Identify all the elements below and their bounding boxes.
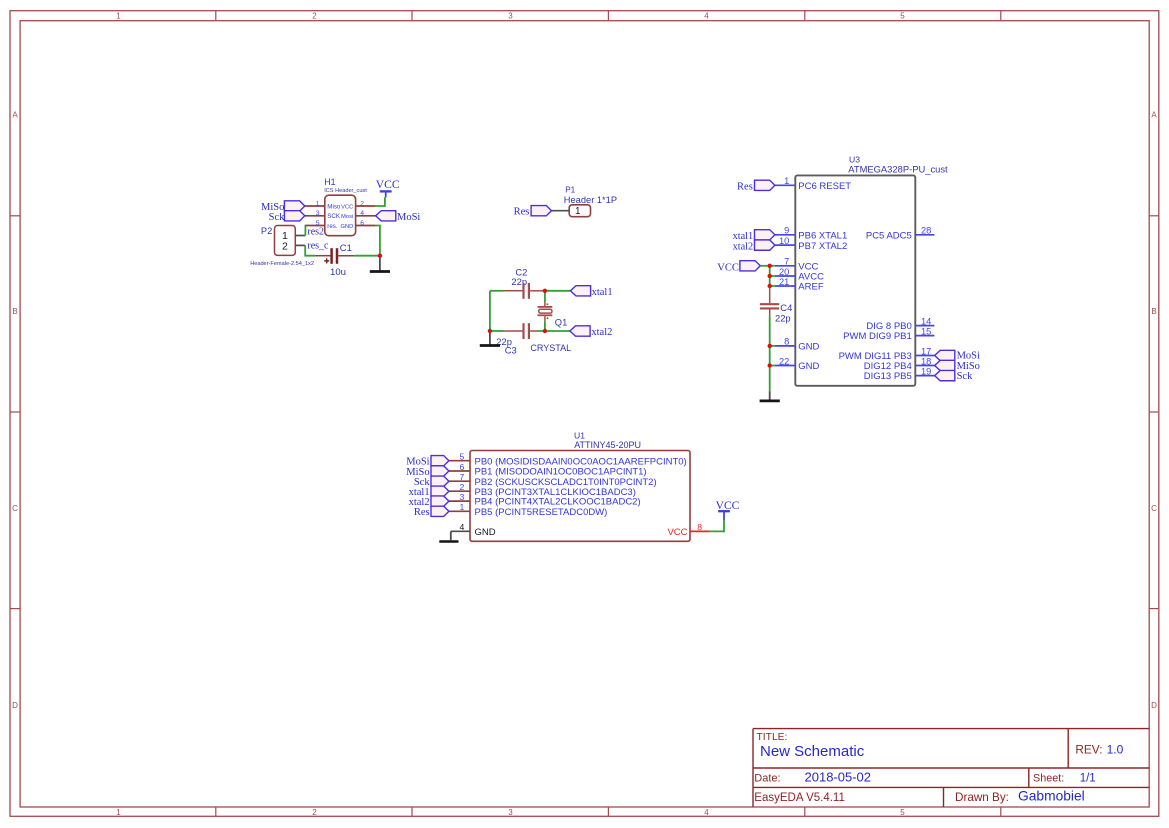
H1 pin 6 (356, 225, 376, 227)
svg-text:VCC: VCC (717, 263, 739, 274)
H1 pin 4 (356, 215, 376, 217)
U1 pin 6 (PB1) (449, 470, 470, 472)
port flag xtal2 (to U3 pin10) (755, 240, 775, 250)
svg-text:3: 3 (459, 492, 464, 502)
svg-text:4: 4 (360, 210, 364, 217)
port flag MoSi (U1) (431, 456, 449, 466)
P2 pin 1 (295, 235, 305, 237)
port flag xtal2 (crystal) (570, 326, 590, 336)
U3 pin 15 (PWM DIG9 PB1) (915, 335, 934, 337)
ground symbol (U3) (769, 391, 771, 400)
junction U3 pin22 GND (768, 363, 772, 367)
svg-text:xtal1: xtal1 (592, 287, 613, 298)
svg-text:21: 21 (779, 277, 789, 287)
capacitor C4 top lead (769, 286, 771, 303)
U1 pin 4 (GND) (451, 530, 470, 532)
header P1 body (569, 205, 590, 217)
svg-text:4: 4 (459, 522, 464, 532)
svg-text:res2: res2 (307, 227, 324, 238)
svg-text:C4: C4 (780, 302, 792, 313)
ground symbol (near C1) (379, 256, 381, 271)
ground symbol (crystal) (489, 331, 491, 345)
ruler numbers bottom (116, 808, 905, 817)
wire VCC to H1 pin2 (376, 197, 385, 206)
header H1 body (325, 195, 356, 236)
U3 pin 10 (PB7 XTAL2) (775, 244, 796, 246)
svg-text:2: 2 (459, 482, 464, 492)
svg-text:DIG13 PB5: DIG13 PB5 (864, 371, 912, 382)
wire pin8 tap (770, 345, 775, 347)
svg-text:8: 8 (784, 337, 789, 347)
port flag xtal1 (U1) (431, 486, 449, 496)
svg-text:2: 2 (282, 240, 288, 252)
svg-text:VCC: VCC (341, 204, 353, 210)
ruler ticks left (10, 216, 20, 609)
svg-text:Miso: Miso (327, 203, 341, 210)
svg-text:8: 8 (697, 522, 702, 532)
svg-text:GND: GND (798, 342, 819, 353)
wire VCC vertical bus (pins 7/20/21) (769, 266, 771, 286)
svg-text:4: 4 (704, 808, 709, 817)
wire C1 to ground junction (354, 255, 380, 257)
U1 pin 7 (PB2) (449, 480, 470, 482)
ruler ticks right (1149, 216, 1159, 609)
crystal Q1 top lead (544, 291, 546, 302)
U1 pin 1 (PB5) (449, 510, 470, 512)
svg-text:Sheet:: Sheet: (1033, 773, 1064, 785)
svg-text:ATTINY45-20PU: ATTINY45-20PU (574, 440, 641, 450)
H1 pin 2 (356, 205, 376, 207)
svg-text:xtal2: xtal2 (733, 241, 754, 252)
svg-text:Mosi: Mosi (341, 214, 353, 220)
svg-text:1: 1 (575, 206, 581, 217)
svg-text:GND: GND (475, 527, 496, 538)
ruler letters right (1151, 111, 1157, 711)
svg-text:22: 22 (779, 356, 789, 366)
H1 pin 3 (305, 215, 325, 217)
U1 pin 5 (PB0) (449, 460, 470, 462)
U3 pin 28 (PC5 ADC5) (915, 234, 934, 236)
junction U3 pin21 AREF (768, 284, 772, 288)
U3 pin 8 (GND) (775, 345, 796, 347)
wire net res2 (H1 pin5 to P2 pin1) (304, 226, 306, 236)
U1 pin 8 (VCC) (690, 530, 710, 532)
svg-text:1: 1 (116, 12, 121, 21)
svg-text:MoSi: MoSi (397, 212, 420, 223)
U3 pin 19 (DIG13 PB5) (915, 375, 934, 377)
U3 pin 9 (PB6 XTAL1) (775, 234, 796, 236)
VCC power symbol (U1) (718, 510, 730, 512)
svg-text:6: 6 (459, 462, 464, 472)
svg-text:15: 15 (921, 326, 931, 336)
svg-text:1/1: 1/1 (1080, 773, 1096, 785)
junction xtal2 (543, 329, 547, 333)
svg-text:1: 1 (784, 176, 789, 186)
svg-text:1.0: 1.0 (1107, 743, 1124, 757)
svg-text:2: 2 (360, 200, 364, 207)
svg-text:Res: Res (737, 181, 753, 192)
U3 pin 14 (DIG 8 PB0) (915, 325, 934, 327)
svg-text:CRYSTAL: CRYSTAL (530, 343, 571, 353)
header P2 body (275, 226, 296, 256)
port flag MiSo (to H1 pin1) (284, 201, 304, 211)
svg-text:VCC: VCC (716, 499, 740, 512)
ruler letters left (12, 111, 18, 711)
port flag xtal2 (U1) (431, 496, 449, 506)
wire C3 left (490, 330, 504, 332)
svg-text:GND: GND (341, 224, 354, 230)
wire net res_c (P2 pin2 to C1) (305, 245, 315, 255)
U3 pin 20 (AVCC) (775, 275, 796, 277)
junction C1/GND (378, 254, 382, 258)
junction U3 pin20 AVCC (768, 274, 772, 278)
svg-text:ATMEGA328P-PU_cust: ATMEGA328P-PU_cust (848, 163, 948, 174)
svg-text:PB7 XTAL2: PB7 XTAL2 (798, 241, 847, 252)
svg-text:10u: 10u (330, 267, 346, 278)
junction U3 pin7 VCC (768, 264, 772, 268)
wire left vertical (C2/C3 left) (489, 291, 491, 331)
svg-text:5: 5 (900, 808, 905, 817)
svg-text:Drawn By:: Drawn By: (955, 791, 1009, 804)
capacitor C1 left lead (315, 255, 331, 257)
svg-text:P2: P2 (261, 226, 272, 236)
svg-text:2: 2 (312, 808, 317, 817)
crystal Q1 plates and body (538, 306, 553, 308)
svg-text:1: 1 (116, 808, 121, 817)
svg-text:10: 10 (779, 236, 789, 246)
svg-text:REV:: REV: (1075, 743, 1102, 757)
VCC power symbol (top, near H1) (380, 190, 392, 192)
svg-text:res.: res. (327, 223, 338, 230)
capacitor C2 leads (504, 290, 522, 292)
ruler ticks bottom (216, 807, 1001, 816)
svg-text:2018-05-02: 2018-05-02 (805, 770, 872, 785)
svg-text:SCK: SCK (327, 213, 341, 220)
capacitor C4 bottom lead (769, 309, 771, 316)
port flag MiSo (U3 pin18) (935, 360, 955, 370)
svg-text:P1: P1 (565, 186, 575, 195)
wire VCC flag to U3 pin7 (760, 265, 774, 267)
port flag Res (to P1) (531, 206, 551, 216)
H1 pin 1 (305, 205, 325, 207)
svg-text:EasyEDA V5.4.11: EasyEDA V5.4.11 (754, 792, 845, 804)
ruler numbers top (116, 12, 905, 21)
junction U3 pin8 GND (768, 344, 772, 348)
svg-text:22p: 22p (775, 313, 791, 324)
svg-text:C1: C1 (340, 242, 352, 253)
U3 pin 18 (DIG12 PB4) (915, 365, 934, 367)
svg-text:3: 3 (508, 12, 513, 21)
port flag MoSi (to H1 pin4) (376, 211, 396, 221)
IC U3 body (795, 175, 915, 385)
junction xtal1 (543, 289, 547, 293)
svg-text:VCC: VCC (376, 178, 400, 191)
capacitor C3 leads (504, 330, 522, 332)
svg-text:1: 1 (459, 502, 464, 512)
crystal Q1 bottom lead (544, 316, 546, 321)
svg-text:C: C (12, 504, 18, 513)
svg-text:Sck: Sck (269, 212, 286, 223)
svg-text:6: 6 (360, 220, 364, 227)
U3 pin 1 (PC6 RESET) (775, 184, 796, 186)
wire pin20 tap (770, 275, 775, 277)
capacitor C4 plates (760, 303, 779, 305)
svg-text:PB5 (PCINT5RESETADC0DW): PB5 (PCINT5RESETADC0DW) (475, 507, 608, 518)
capacitor C1 polarity plus (324, 260, 329, 262)
svg-text:4: 4 (704, 12, 709, 21)
P1 pin 1 (552, 210, 570, 212)
svg-text:17: 17 (921, 346, 931, 356)
port flag xtal1 (to U3 pin9) (755, 230, 775, 240)
svg-text:AREF: AREF (798, 282, 824, 293)
svg-text:ICS Header_cust: ICS Header_cust (324, 188, 367, 194)
svg-text:PWM DIG9 PB1: PWM DIG9 PB1 (843, 331, 912, 342)
svg-text:B: B (12, 307, 17, 316)
port flag MoSi (U3 pin17) (935, 350, 955, 360)
svg-text:20: 20 (779, 267, 789, 277)
port flag Res (U1) (431, 506, 449, 516)
wire C3 to xtal2 junction (537, 330, 570, 332)
svg-text:22p: 22p (511, 276, 527, 287)
wire pin22 tap (770, 365, 775, 367)
U3 pin 22 (GND) (775, 365, 796, 367)
svg-text:9: 9 (784, 226, 789, 236)
svg-text:PC6 RESET: PC6 RESET (798, 181, 851, 192)
svg-text:TITLE:: TITLE: (757, 732, 788, 743)
svg-text:5: 5 (459, 452, 464, 462)
svg-text:D: D (12, 701, 18, 710)
capacitor C3 plates (522, 323, 524, 339)
svg-text:res_c: res_c (307, 241, 329, 252)
svg-text:PC5 ADC5: PC5 ADC5 (866, 230, 912, 241)
port flag Sck (U3 pin19) (935, 370, 955, 380)
svg-text:Sck: Sck (957, 371, 974, 382)
ruler ticks top (216, 11, 1001, 21)
svg-text:Res: Res (514, 206, 530, 217)
IC U1 body (470, 451, 690, 542)
U1 pin 2 (PB3) (449, 490, 470, 492)
capacitor C1 right lead (338, 255, 354, 257)
svg-text:C: C (1151, 504, 1157, 513)
svg-text:A: A (12, 111, 18, 120)
svg-text:7: 7 (459, 472, 464, 482)
U1 pin 3 (PB4) (449, 500, 470, 502)
port flag xtal1 (crystal) (570, 286, 590, 296)
U3 pin 21 (AREF) (775, 285, 796, 287)
svg-text:1: 1 (316, 200, 320, 207)
wire U1 pin8 to VCC (710, 521, 724, 532)
svg-text:D: D (1151, 701, 1157, 710)
svg-text:3: 3 (508, 808, 513, 817)
svg-text:Header 1*1P: Header 1*1P (564, 195, 617, 205)
junction C3/ground (488, 329, 492, 333)
svg-text:H1: H1 (324, 177, 335, 187)
svg-text:C3: C3 (505, 344, 517, 355)
svg-text:7: 7 (784, 257, 789, 267)
port flag VCC (to U3 pin7) (740, 261, 760, 271)
svg-text:28: 28 (921, 226, 931, 236)
svg-text:A: A (1151, 111, 1157, 120)
wire pin21 tap (770, 285, 775, 287)
U3 pin 7 (VCC) (775, 265, 796, 267)
capacitor C1 plates (330, 248, 333, 264)
wire C2 left (490, 290, 504, 292)
svg-text:Res: Res (414, 507, 430, 518)
H1 pin 5 (305, 225, 325, 227)
svg-text:Date:: Date: (754, 773, 780, 785)
svg-text:Q1: Q1 (555, 317, 568, 328)
port flag Res (to U3 pin1) (755, 180, 775, 190)
ground symbol (U1) (450, 531, 452, 540)
svg-text:VCC: VCC (667, 527, 687, 538)
svg-text:B: B (1151, 307, 1156, 316)
svg-text:xtal2: xtal2 (591, 327, 612, 338)
svg-text:19: 19 (921, 366, 931, 376)
title block frame (753, 729, 1149, 807)
capacitor C2 plates (522, 283, 524, 299)
P2 pin 2 (295, 244, 305, 246)
svg-text:Gabmobiel: Gabmobiel (1018, 789, 1085, 804)
wire to xtal1 flag (543, 290, 570, 292)
crystal Q1 pin end dots (546, 303, 548, 305)
U3 pin 17 (PWM DIG11 PB3) (915, 355, 934, 357)
port flag MiSo (U1) (431, 466, 449, 476)
port flag Sck (U1) (431, 476, 449, 486)
svg-text:Header-Female-2.54_1x2: Header-Female-2.54_1x2 (250, 261, 314, 267)
svg-text:14: 14 (921, 316, 931, 326)
svg-text:New Schematic: New Schematic (760, 743, 865, 760)
svg-text:18: 18 (921, 356, 931, 366)
svg-text:2: 2 (312, 12, 317, 21)
svg-text:5: 5 (900, 12, 905, 21)
svg-text:GND: GND (798, 361, 819, 372)
wire H1 pin6 to GND junction (376, 226, 380, 256)
port flag Sck (to H1 pin3) (284, 211, 304, 221)
svg-text:3: 3 (316, 210, 320, 217)
wire C4 to GND pins (769, 317, 771, 392)
